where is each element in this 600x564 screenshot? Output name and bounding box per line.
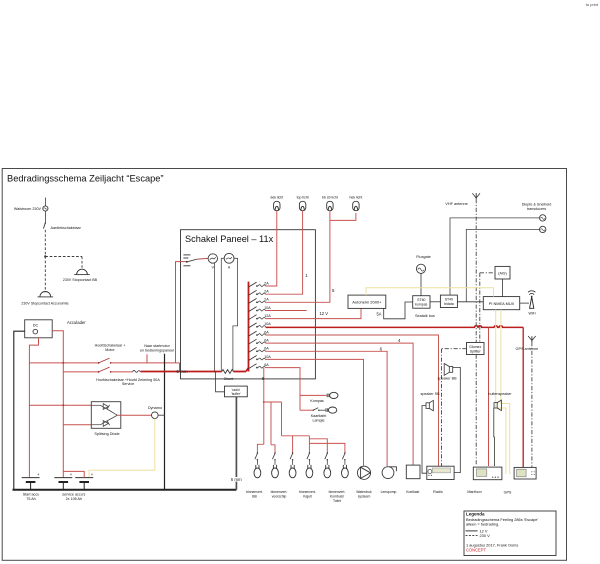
svg-text:CONCEPT: CONCEPT — [466, 547, 487, 552]
svg-text:hek licht: hek licht — [349, 196, 362, 200]
wire: charger minus (black) to ground bus — [14, 331, 25, 490]
interior lamp + switch at x=327.3 — [324, 452, 331, 478]
svg-text:en bedieningspaneel: en bedieningspaneel — [140, 348, 174, 352]
svg-text:2A: 2A — [264, 290, 269, 294]
svg-text:Lenspomp: Lenspomp — [381, 490, 397, 494]
wire: ammeter left leg to shunt — [221, 258, 224, 371]
lamp: dek licht — [270, 196, 283, 211]
labels interior lamps — [246, 490, 345, 503]
svg-text:Splitter: Splitter — [470, 349, 482, 353]
svg-text:binnenvert.: binnenvert. — [299, 490, 316, 494]
shunt — [222, 370, 234, 381]
svg-text:Service: Service — [122, 382, 134, 386]
ground bus (minus) — [13, 489, 237, 491]
svg-text:speaker BB: speaker BB — [437, 377, 457, 381]
svg-text:Hoofdschakelaar +Hoofd Zekerin: Hoofdschakelaar +Hoofd Zekering 50A — [96, 378, 160, 382]
svg-text:230V Stopcontact Accuruimte: 230V Stopcontact Accuruimte — [21, 302, 68, 306]
lamp: hek licht — [349, 196, 362, 211]
multiplexer: PI NMEA MUX — [483, 297, 519, 310]
svg-text:PI NMEA MUX: PI NMEA MUX — [489, 301, 515, 306]
svg-text:Lampje: Lampje — [312, 418, 324, 422]
title — [7, 174, 164, 184]
svg-text:dek licht: dek licht — [270, 196, 283, 200]
svg-text:'buffer': 'buffer' — [231, 392, 241, 396]
wire: S1 output / naar startmotor — [111, 344, 180, 363]
seatalk bus wire — [384, 302, 435, 319]
wire: fuse 11 to kompas/kaartlicht — [266, 368, 301, 411]
svg-text:6 mm: 6 mm — [176, 369, 188, 374]
230V wire to BB socket — [45, 257, 82, 268]
svg-text:10A: 10A — [264, 322, 271, 326]
battery B3: service accu 2 — [62, 472, 93, 501]
interior lamp + switch at x=309.4 — [306, 452, 313, 478]
wifi antenna — [520, 291, 536, 316]
wire: ST60-ST40 seatalk — [430, 301, 440, 303]
wire: Marifoon supply branch — [488, 327, 490, 466]
interior lamp + switch at x=275.0 — [272, 452, 279, 478]
svg-text:speaker SB: speaker SB — [420, 392, 440, 396]
svg-text:Fluxgate: Fluxgate — [416, 255, 431, 259]
node: 230V junction — [44, 255, 46, 257]
antenna splitter: Glomex Splitter — [467, 343, 485, 355]
breaker row 9: fuse 6A — [249, 347, 270, 353]
VHF set: Marifoon — [467, 467, 502, 494]
svg-text:Waterdruk: Waterdruk — [356, 490, 372, 494]
wire: startmotor ground (black) — [164, 354, 166, 490]
lamp: Kompas — [300, 392, 338, 403]
breaker row 2: fuse 2A — [249, 290, 270, 296]
svg-text:bb sb licht: bb sb licht — [322, 196, 338, 200]
socket: 230V Stopcontact Accuruimte — [21, 292, 68, 306]
breaker: Aardlekschakelaar — [43, 211, 81, 230]
breaker row 11: fuse 6A — [249, 363, 270, 369]
230V wire (dashed) down — [44, 230, 46, 292]
instrument: ST60 kompas — [413, 296, 430, 309]
interior lamp + switch at x=257.4 — [254, 452, 261, 478]
interior lamp + switch at x=292.6 — [289, 452, 296, 478]
coax: AIS tap — [480, 273, 495, 343]
svg-text:Seatalk bus: Seatalk bus — [415, 314, 435, 318]
wire: interior lights feed — [257, 368, 345, 453]
wire 6: fuse 9 to Lenspomp — [266, 347, 388, 466]
wire: service battery to diode bottom input — [63, 424, 91, 426]
wire: fuse 4 12V outlet — [266, 311, 329, 317]
svg-text:Kompas: Kompas — [310, 399, 324, 403]
wire: AIS to MUX — [502, 279, 504, 297]
transducers: Diepte & Snelheid — [522, 202, 552, 232]
svg-text:Kaartlafel: Kaartlafel — [311, 414, 327, 418]
breaker row 10: fuse 10A — [249, 355, 272, 361]
radio memory buffer box — [225, 386, 248, 397]
coax: splitter to Marifoon — [475, 355, 477, 467]
wire: fuse 7 to Radio — [266, 335, 439, 466]
wire: tie down to main bus — [179, 363, 181, 372]
GPS set — [504, 467, 536, 494]
svg-text:2x 105 Ah: 2x 105 Ah — [66, 497, 82, 501]
wire: voltmeter leg — [214, 263, 216, 372]
svg-text:Kombuis/: Kombuis/ — [330, 494, 344, 498]
svg-text:Bedradingsschema Zeiljacht “Es: Bedradingsschema Zeiljacht “Escape” — [7, 174, 164, 184]
svg-text:Motor: Motor — [105, 348, 115, 352]
svg-text:10A: 10A — [264, 355, 271, 359]
svg-text:10A: 10A — [264, 306, 271, 310]
battery B1: Start accu 75 Ah — [22, 472, 40, 501]
svg-text:2A: 2A — [264, 298, 269, 302]
svg-text:buitenspeaker: buitenspeaker — [488, 392, 512, 396]
svg-text:kompas: kompas — [415, 302, 428, 306]
svg-text:binnenvert.: binnenvert. — [246, 490, 263, 494]
wire: dek licht to fuse 1 — [266, 211, 277, 286]
wire: fuse 5 to Autohelm, 5A — [266, 308, 382, 318]
svg-text:6A: 6A — [264, 330, 269, 334]
battery charger: Acculader — [25, 320, 87, 338]
svg-text:voorschip: voorschip — [272, 494, 287, 498]
wire: buitenspeaker to marifoon — [493, 408, 496, 466]
dynamo — [148, 406, 165, 419]
svg-text:6 mm: 6 mm — [231, 477, 242, 482]
wire: feed up to panel selector — [175, 261, 177, 363]
nmea (yellow) to Autohelm — [366, 288, 494, 297]
svg-text:ST60: ST60 — [417, 298, 425, 302]
svg-text:5A: 5A — [377, 312, 382, 317]
svg-text:top licht: top licht — [297, 196, 309, 200]
wire: ammeter right leg to shunt — [233, 258, 238, 370]
wire: start battery to diode top input — [29, 404, 91, 406]
GPS antenna — [515, 336, 538, 351]
svg-text:binnenvert.: binnenvert. — [271, 490, 288, 494]
wire 4: fuse 8 to Koelkast — [266, 338, 414, 465]
svg-text:12 V: 12 V — [320, 311, 329, 316]
svg-text:GPS antenne: GPS antenne — [515, 347, 538, 351]
svg-text:Acculader: Acculader — [67, 320, 86, 325]
svg-text:2A: 2A — [264, 281, 269, 285]
wire: speaker SB to radio — [422, 406, 427, 474]
fluxgate compass sensor — [416, 255, 431, 296]
AC source: Walstroom 230V — [14, 198, 48, 212]
panel 12V fuse bus — [248, 282, 250, 372]
wire 1: top licht to fuse 2 — [266, 211, 309, 294]
svg-text:alleen = bedrading.: alleen = bedrading. — [466, 521, 499, 526]
VHF antenna — [445, 193, 480, 206]
svg-text:Start accu: Start accu — [23, 493, 40, 497]
svg-text:bidata: bidata — [444, 302, 454, 306]
breaker row 3: fuse 2A — [249, 298, 270, 304]
svg-text:binnenvert.: binnenvert. — [329, 490, 346, 494]
breaker row 5: fuse 12A — [249, 314, 272, 320]
coax: splitter to Radio — [442, 349, 467, 467]
socket: 230V Stopcontact BB — [63, 269, 98, 282]
battery selector switch — [176, 255, 208, 266]
breaker row 7: fuse 6A — [249, 330, 270, 336]
svg-text:BB: BB — [252, 494, 257, 498]
wire: speed transducer to ST40 — [466, 229, 539, 301]
switch panel box: Schakel Paneel 11x — [181, 230, 316, 379]
svg-text:transducers: transducers — [527, 207, 546, 211]
svg-text:6A: 6A — [264, 347, 269, 351]
svg-text:12A: 12A — [264, 314, 271, 318]
svg-text:230V Stopcontact BB: 230V Stopcontact BB — [63, 278, 98, 282]
wire: fuse 10 to Waterdruk pomp — [266, 359, 364, 466]
wire: diode output to dynamo — [117, 414, 151, 416]
svg-text:(AIS): (AIS) — [498, 271, 506, 275]
diode splitter: Splitsing Diode — [91, 402, 121, 436]
AIS receiver box — [495, 266, 510, 279]
svg-text:to print: to print — [586, 2, 599, 7]
speaker BB — [437, 364, 457, 381]
nmea (yellow) MUX to Marifoon/GPS — [496, 310, 510, 474]
svg-text:Splitsing Diode: Splitsing Diode — [94, 432, 119, 436]
svg-text:Walstroom 230V: Walstroom 230V — [14, 207, 42, 211]
pump: Waterdruk systeem — [356, 466, 372, 498]
wire: ST40 to NMEA MUX — [457, 301, 483, 303]
voltmeter V — [208, 254, 217, 270]
svg-text:Marifoon: Marifoon — [467, 490, 481, 494]
radio set — [427, 466, 454, 494]
breaker row 8: fuse 6A — [249, 339, 270, 345]
node label 5 on panel bottom — [262, 376, 265, 381]
svg-text:Toilet: Toilet — [333, 499, 341, 503]
wire: service battery plus tie — [63, 471, 84, 477]
wire: charger output to start battery (vertical A) — [29, 338, 38, 478]
svg-text:Kajuit: Kajuit — [303, 494, 312, 498]
svg-text:DC: DC — [33, 324, 39, 328]
wire: buffer ground 6 mm — [231, 397, 243, 490]
fridge: Koelkast — [406, 465, 420, 494]
svg-text:Glomex: Glomex — [469, 345, 481, 349]
svg-text:Autohelm 2000+: Autohelm 2000+ — [352, 300, 382, 305]
lamp: top licht — [297, 196, 309, 211]
svg-text:6A: 6A — [264, 339, 269, 343]
lamp: bb sb licht — [322, 196, 338, 211]
pump: Lenspomp — [381, 467, 397, 494]
svg-text:Hoofdschakelaar +: Hoofdschakelaar + — [95, 344, 126, 348]
wire: depth transducer to ST40 — [450, 218, 540, 295]
svg-text:230 V: 230 V — [480, 533, 491, 538]
fuse 50A — [111, 370, 141, 372]
svg-text:WiFi: WiFi — [529, 311, 536, 315]
lamp: Kaartlafel Lampje with switch — [300, 407, 337, 422]
breaker row 1: fuse 2A — [249, 281, 270, 287]
main 12V bus (6 mm) — [141, 368, 249, 375]
drawing frame — [2, 169, 566, 561]
switch S2: Hoofdschakelaar + Hoofd Zekering 50A Service — [63, 367, 160, 386]
interior lamp + switch at x=344.9 — [342, 452, 349, 478]
breaker row 6: fuse 10A — [249, 322, 272, 328]
wire 5: bb sb licht + hek licht to fuse 3 — [266, 211, 356, 302]
coax: VHF antenna down to splitter — [475, 199, 477, 343]
legend box — [464, 511, 556, 556]
svg-text:Diepte & Snelheid: Diepte & Snelheid — [522, 202, 552, 206]
breaker row 4: fuse 10A — [249, 306, 272, 312]
svg-text:Naar startmotor: Naar startmotor — [144, 344, 170, 348]
wire: fuse 6 thick feed to Marifoon/GPS with crossing hops — [266, 326, 524, 328]
wire: GPS supply branch — [522, 327, 524, 467]
wire: dynamo sense (yellow) to service battery — [89, 419, 155, 478]
svg-text:ST40: ST40 — [445, 297, 453, 301]
wire: panel to radio buffer — [216, 372, 225, 392]
instrument: ST40 bidata — [440, 295, 457, 307]
speaker SB — [420, 392, 440, 411]
svg-text:service accu's: service accu's — [62, 493, 85, 497]
svg-text:Dynamo: Dynamo — [148, 406, 162, 410]
svg-text:systeem: systeem — [358, 494, 371, 498]
ammeter A — [224, 253, 234, 269]
svg-text:6A: 6A — [264, 363, 269, 367]
svg-text:Schakel Paneel – 11x: Schakel Paneel – 11x — [185, 234, 274, 244]
switch S1: Hoofdschakelaar + Motor — [29, 344, 125, 364]
sheet note top-right — [586, 2, 599, 7]
svg-text:75 Ah: 75 Ah — [26, 497, 35, 501]
wire: charger output to service battery (vertical B) — [52, 331, 63, 478]
svg-text:Radio: Radio — [433, 490, 443, 494]
coax: GPS antenna to GPS — [531, 342, 533, 467]
wire: speaker BB to radio — [453, 367, 461, 472]
battery B2: service accu 1 — [54, 472, 72, 490]
svg-text:Koelkast: Koelkast — [406, 490, 419, 494]
svg-text:GPS: GPS — [504, 491, 512, 495]
buitenspeaker — [488, 392, 512, 410]
svg-text:VHF antenne: VHF antenne — [445, 202, 467, 206]
svg-text:Aardlekschakelaar: Aardlekschakelaar — [51, 226, 82, 230]
autopilot: Autohelm 2000+ — [348, 295, 386, 308]
